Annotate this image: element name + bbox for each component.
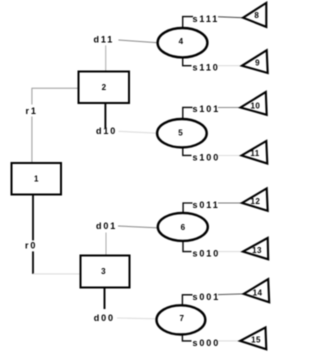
svg-text:4: 4 [179,37,184,46]
svg-text:d11: d11 [94,35,115,45]
svg-text:d00: d00 [94,313,115,323]
svg-text:r1: r1 [26,106,38,116]
svg-text:s000: s000 [193,338,221,348]
svg-text:d10: d10 [96,126,117,136]
svg-text:1: 1 [34,175,39,184]
svg-text:6: 6 [181,223,186,232]
svg-text:s100: s100 [193,152,221,162]
svg-text:s110: s110 [193,63,220,73]
svg-text:s011: s011 [193,200,220,210]
svg-text:5: 5 [178,129,183,138]
svg-text:r0: r0 [25,241,37,251]
svg-text:s010: s010 [193,249,221,259]
svg-text:13: 13 [252,246,262,255]
svg-text:10: 10 [251,101,261,110]
svg-text:14: 14 [253,288,263,297]
svg-text:s101: s101 [193,104,221,114]
svg-text:d01: d01 [96,221,117,231]
svg-text:s111: s111 [193,14,220,24]
svg-text:3: 3 [101,267,106,276]
svg-text:2: 2 [102,83,107,92]
svg-text:9: 9 [255,58,260,67]
svg-text:s001: s001 [193,292,221,302]
svg-text:11: 11 [250,149,259,158]
svg-text:12: 12 [251,197,261,206]
svg-text:8: 8 [254,11,259,20]
svg-text:15: 15 [251,336,261,345]
svg-text:7: 7 [179,314,184,323]
